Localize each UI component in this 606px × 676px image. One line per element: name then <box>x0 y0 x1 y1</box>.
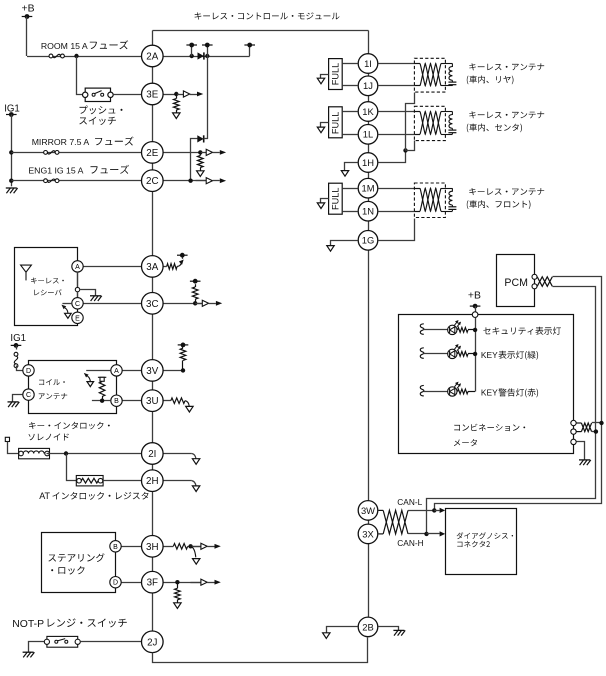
label receiver line2 <box>34 289 61 295</box>
connector 1K <box>358 102 378 122</box>
wire IG1 bus <box>11 115 13 187</box>
wire FULL2 left <box>321 123 329 128</box>
junction 3F <box>175 580 179 584</box>
wire A to 3A <box>83 266 141 268</box>
svg-text:2H: 2H <box>146 476 159 487</box>
wire 3V right <box>163 370 183 372</box>
junction 3H <box>188 544 192 548</box>
label coil antenna line1 <box>39 379 65 385</box>
resistor 3F pulldown <box>175 582 181 603</box>
wire antenna3 bottom <box>379 211 415 213</box>
junction 2C <box>188 179 192 183</box>
wire D to 3F <box>121 582 141 584</box>
svg-text:D: D <box>26 368 31 375</box>
wire 2A right <box>163 56 250 58</box>
connector 2E <box>142 142 164 164</box>
wire C to 3C <box>83 303 141 305</box>
terminal 3A <box>177 253 188 258</box>
wire C signal stub <box>62 303 71 305</box>
fuse ROOM 15A <box>49 54 64 58</box>
junction lamp2 <box>473 352 477 356</box>
label antenna1 line2 <box>467 76 514 85</box>
terminal IG1 coil <box>11 343 22 348</box>
wire D2 anode <box>191 139 198 181</box>
resistor coil inner <box>99 382 105 401</box>
wire +B meter stub <box>475 306 477 311</box>
wire CAN outer <box>435 277 602 511</box>
terminal 2A-a <box>186 43 197 48</box>
resistor 3E pulldown <box>174 94 180 113</box>
svg-text:3W: 3W <box>361 505 375 516</box>
diode D1 <box>198 52 204 59</box>
pin D steering <box>110 577 121 588</box>
svg-text:2A: 2A <box>146 52 158 63</box>
label MIRROR fuse jp <box>95 137 133 146</box>
label antenna3 line2 <box>467 200 531 209</box>
wire solenoid left <box>8 442 19 454</box>
wire meter can2 link <box>592 431 596 433</box>
wire 3H right b <box>188 546 201 548</box>
wire FULL3 top <box>342 188 357 190</box>
pin meter top <box>472 312 478 318</box>
arrow continuation 3H <box>191 546 200 564</box>
svg-text:3U: 3U <box>146 396 159 407</box>
connector 3E <box>142 83 164 105</box>
connector 1N <box>358 201 378 221</box>
arrow out 3C <box>195 300 222 306</box>
wire A to 3V <box>122 370 141 372</box>
wire D2 cathode <box>204 138 208 140</box>
pin B steering <box>110 541 121 552</box>
wire bottom rail <box>153 638 368 663</box>
pin E receiver <box>72 312 83 323</box>
connector 3W <box>358 501 378 521</box>
connector 1L <box>358 125 378 145</box>
junction CAN-H <box>424 532 428 536</box>
svg-text:3A: 3A <box>146 262 158 273</box>
wire diode D2 feed <box>207 56 209 139</box>
keyless antenna 2 <box>414 106 456 140</box>
svg-text:C: C <box>75 301 80 308</box>
label ENG1 fuse jp <box>91 165 129 174</box>
resistor 3U <box>171 398 185 404</box>
wire B to 3U <box>122 400 141 402</box>
wire FULL3 bottom <box>342 211 357 213</box>
svg-text:A: A <box>75 264 80 271</box>
box coil antenna <box>29 361 117 414</box>
arrow continuation FULL3 <box>317 203 324 209</box>
wire 3C right <box>163 303 202 305</box>
wire CAN inner <box>427 287 596 535</box>
connector 2A <box>142 45 164 67</box>
keyless antenna 3 <box>414 183 456 218</box>
label interlock line2 <box>29 433 69 440</box>
ground 2B <box>393 630 405 635</box>
wire 1G right <box>379 219 415 241</box>
connector 2C <box>142 170 164 192</box>
pin meter can1 <box>571 420 576 425</box>
wire IG1 coil down <box>16 345 18 349</box>
svg-text:MIRROR 7.5 A: MIRROR 7.5 A <box>32 137 90 147</box>
wire 2E right <box>163 152 200 154</box>
wire 1G left <box>331 241 358 246</box>
terminal 3V <box>178 343 189 348</box>
wire antenna2 top <box>379 111 415 113</box>
connector 1J <box>358 76 378 96</box>
wire 3H right a <box>163 546 173 548</box>
svg-text:2I: 2I <box>148 449 156 460</box>
pin B coil <box>111 395 122 406</box>
svg-text:B: B <box>114 398 119 405</box>
fuse ENG1 15A <box>44 179 59 183</box>
wire meter gnd <box>577 442 585 460</box>
FULL box 1 <box>329 59 343 90</box>
resistor lamp3 <box>458 389 476 394</box>
signal arrow receiver <box>61 305 71 319</box>
label lamp1 jp <box>483 327 561 335</box>
junction ENG1 <box>9 179 13 183</box>
wire fuse to D <box>17 366 23 371</box>
wire 3U right <box>163 400 171 402</box>
arrow continuation 3U <box>185 401 193 412</box>
label interlock line1 <box>29 422 110 430</box>
svg-text:FULL: FULL <box>330 187 340 209</box>
resistor lamp1 <box>458 328 476 333</box>
junction 3C <box>193 301 197 305</box>
terminal 2A-c <box>244 43 255 48</box>
connector 3X <box>358 524 378 544</box>
wire antenna1 top <box>379 63 415 65</box>
wire lamp1 feed <box>424 329 448 331</box>
ground IG1 <box>6 188 18 193</box>
wire stub 2A-b <box>207 45 209 56</box>
ground meter <box>579 460 591 465</box>
pin receiver gnd <box>75 287 79 291</box>
wire NOT-P to 2J <box>80 641 141 643</box>
resistor 2E pulldown <box>198 152 204 170</box>
wire 2B right <box>379 627 399 631</box>
label steering line2 <box>51 566 84 574</box>
svg-text:2J: 2J <box>147 637 157 648</box>
antenna symbol <box>21 265 32 280</box>
wire left module bus <box>152 31 154 632</box>
svg-text:KEY: KEY <box>481 350 498 360</box>
wire 2I right <box>163 453 192 455</box>
pad coil inner <box>98 377 106 381</box>
resistor 3H <box>173 544 187 550</box>
wire receiver gnd lead <box>80 290 96 296</box>
lamp LED 3 <box>448 382 461 397</box>
wire gnd pin to C <box>77 292 79 298</box>
wire FULL1 top <box>342 63 357 65</box>
resistor 3C pullup <box>192 284 198 303</box>
junction lamp1 <box>473 328 477 332</box>
twisted pair CAN <box>379 510 409 534</box>
svg-text:+B: +B <box>468 291 481 302</box>
label antenna2 line1 <box>469 111 544 118</box>
wire ENG1 row <box>11 180 141 182</box>
svg-text:3H: 3H <box>146 542 159 553</box>
arrow out 3H <box>190 543 220 549</box>
wire CAN-L <box>408 510 434 512</box>
resistor lamp2 <box>458 352 476 357</box>
wire lamp3 squiggle <box>420 385 424 396</box>
pin A receiver <box>72 261 83 272</box>
arrow out 2C <box>196 178 227 184</box>
svg-text:1N: 1N <box>362 206 374 217</box>
arrow continuation 1H <box>341 171 348 177</box>
arrow out 3F <box>190 579 220 585</box>
connector 1I <box>358 54 378 74</box>
resistor 3A <box>167 264 177 270</box>
wire ROOM row <box>27 56 142 58</box>
junction push-switch branch <box>74 54 78 58</box>
wire C coil gnd <box>13 395 23 402</box>
svg-text:C: C <box>26 392 31 399</box>
label diagnosis line2 <box>457 541 490 547</box>
junction 2A-b <box>205 54 209 58</box>
wire FULL3 left <box>321 199 329 203</box>
label meter line1 <box>454 424 525 431</box>
fuse MIRROR 7.5A <box>44 151 59 155</box>
svg-text:2C: 2C <box>146 176 159 187</box>
wire stub 2A-c <box>249 45 251 56</box>
arrow CAN-L <box>434 508 445 513</box>
wire AT resistor branch <box>67 454 77 481</box>
svg-text:FULL: FULL <box>330 112 340 134</box>
twisted pair PCM <box>537 277 552 287</box>
connector 1G <box>358 231 378 251</box>
label ROOM fuse jp <box>90 40 128 49</box>
wire AT resistor to 2H <box>103 480 141 482</box>
diode D2 <box>197 135 203 142</box>
label antenna3 line1 <box>469 188 544 195</box>
wire push-switch branch <box>77 57 84 95</box>
wire meter can1 link <box>592 422 602 424</box>
label module title <box>195 12 340 19</box>
terminal +B meter <box>470 304 481 309</box>
resistor 3V pullup <box>180 345 186 370</box>
connector 1H <box>358 153 378 173</box>
box PCM <box>497 255 535 307</box>
box steering lock <box>42 533 116 593</box>
wire right module bus <box>368 31 370 617</box>
pin meter can2 <box>571 429 576 434</box>
junction B inner <box>100 399 104 403</box>
wire 2B left <box>327 627 358 633</box>
ground NOT-P <box>23 652 35 657</box>
connector 2I <box>142 443 164 465</box>
label NOT-P jp <box>48 618 127 627</box>
wire antenna3 top <box>379 188 415 190</box>
pin C coil <box>23 389 34 400</box>
svg-text:3F: 3F <box>147 578 158 589</box>
junction 2E <box>198 150 202 154</box>
wire +B down <box>26 17 28 57</box>
svg-text:3X: 3X <box>362 528 374 539</box>
svg-text:FULL: FULL <box>330 63 340 85</box>
pin PCM 2 <box>532 284 537 289</box>
connector 3H <box>142 536 164 558</box>
junction MIRROR <box>9 150 13 154</box>
wire solenoid to 2I <box>47 453 142 455</box>
connector 2J <box>142 631 164 653</box>
wire lamp1 squiggle <box>420 324 424 335</box>
ground receiver <box>90 296 102 301</box>
arrow continuation FULL1 <box>317 78 324 84</box>
label diagnosis line1 <box>457 532 513 539</box>
wire share-antenna2 <box>406 141 415 151</box>
lamp LED 2 <box>448 344 461 359</box>
arrow continuation 3F <box>174 603 181 609</box>
wire stub 2A-a <box>191 45 193 56</box>
label coil antenna line2 <box>39 393 67 399</box>
wire receiver gnd pin <box>77 272 79 287</box>
box combination meter <box>399 315 574 454</box>
wire 3F right <box>163 582 201 584</box>
junction meter can1 <box>599 421 603 425</box>
wire B to 3H <box>121 546 141 548</box>
keyless antenna 1 <box>414 58 456 92</box>
wire FULL1 left <box>321 75 329 79</box>
svg-text:2B: 2B <box>362 621 373 632</box>
wire antenna1-share <box>406 93 415 151</box>
wire FULL2 top <box>342 111 357 113</box>
arrow continuation FULL2 <box>317 127 324 133</box>
wire 2H right <box>163 480 192 482</box>
wire MIRROR row <box>11 152 141 154</box>
svg-text:3E: 3E <box>146 90 158 101</box>
svg-text:1J: 1J <box>363 80 373 91</box>
terminal 2A-b <box>202 43 213 48</box>
label lamp3 jp <box>499 388 539 397</box>
svg-text:NOT-P: NOT-P <box>12 619 44 630</box>
push switch <box>83 88 114 101</box>
junction antenna share <box>403 148 407 152</box>
svg-text:ENG1 IG 15 A: ENG1 IG 15 A <box>28 165 83 175</box>
connector 3C <box>142 293 164 315</box>
wire B inner stub <box>92 400 111 402</box>
wire 3A term stub <box>182 255 184 259</box>
box keyless receiver <box>15 248 78 326</box>
svg-text:A: A <box>114 368 119 375</box>
pin PCM 1 <box>532 274 537 279</box>
fuse coil antenna <box>14 352 18 367</box>
svg-text:1I: 1I <box>364 58 372 69</box>
arrow continuation 2B <box>323 633 330 639</box>
pin C receiver <box>72 298 83 309</box>
svg-text:ROOM 15 A: ROOM 15 A <box>41 41 88 51</box>
svg-text:3V: 3V <box>146 366 158 377</box>
connector 3F <box>142 571 164 593</box>
wire 1H right <box>379 151 406 163</box>
wire FULL1 bottom <box>342 85 357 87</box>
connector 2B <box>358 617 378 637</box>
NOT-P switch <box>44 636 80 647</box>
wire lamp2 feed <box>424 353 448 355</box>
arrow out 3E <box>176 91 203 97</box>
lamp LED 1 <box>448 320 461 335</box>
twisted pair meter <box>576 423 591 432</box>
junction solenoid <box>64 451 68 455</box>
label push switch line1 <box>80 106 123 115</box>
wire NOT-P left <box>29 642 47 653</box>
wire A inner stub <box>86 370 111 372</box>
svg-text:B: B <box>113 544 118 551</box>
terminal IG1 <box>6 112 17 117</box>
arrow continuation 1G <box>327 246 334 252</box>
pin A coil <box>111 365 122 376</box>
arrow continuation 2I <box>192 454 200 465</box>
ground coil C <box>8 402 20 407</box>
wire 3E right <box>163 94 176 96</box>
junction 3E <box>174 92 178 96</box>
label push switch line2 <box>79 117 116 125</box>
wire FULL2 bottom <box>342 134 357 136</box>
arrow continuation 3E <box>173 113 180 119</box>
FULL box 2 <box>329 107 343 138</box>
label lamp2 jp <box>498 351 538 360</box>
svg-text:1M: 1M <box>361 183 374 194</box>
arrow continuation 2H <box>192 481 200 492</box>
wire 2C right <box>163 180 206 182</box>
pad solenoid <box>5 437 9 441</box>
label antenna2 line2 <box>467 124 522 133</box>
wire meter lamp rail <box>475 318 477 392</box>
arrow out 2E <box>200 149 226 155</box>
svg-text:IG1: IG1 <box>10 333 26 344</box>
svg-text:1L: 1L <box>363 129 373 140</box>
AT interlock resistor <box>76 476 103 486</box>
terminal +B <box>22 14 33 19</box>
label antenna1 line1 <box>469 63 544 70</box>
label steering line1 <box>48 553 104 562</box>
junction 2A-a <box>190 54 194 58</box>
connector 3A <box>142 256 164 278</box>
wire 3A bend <box>177 263 181 266</box>
connector 2H <box>142 470 164 492</box>
svg-text:1G: 1G <box>362 235 375 246</box>
svg-text:1H: 1H <box>362 157 374 168</box>
svg-text:1K: 1K <box>362 106 374 117</box>
junction CAN-L <box>432 508 436 512</box>
svg-text:D: D <box>113 580 118 587</box>
wire antenna2 bottom <box>379 134 415 136</box>
arrow continuation 2E <box>197 171 204 177</box>
label receiver line1 <box>31 278 64 284</box>
svg-text:CAN-L: CAN-L <box>397 497 422 507</box>
pin D coil <box>23 365 34 376</box>
signal arrowhead 3A <box>179 260 184 265</box>
svg-text:CAN-H: CAN-H <box>397 538 423 548</box>
wire 3A right <box>163 266 167 268</box>
svg-text:KEY: KEY <box>481 388 498 398</box>
wire lamp2 squiggle <box>420 348 424 359</box>
label AT resistor jp <box>53 492 149 500</box>
junction meter can2 <box>594 429 598 433</box>
wire module top rail <box>153 30 369 32</box>
svg-text:+B: +B <box>22 3 35 14</box>
solenoid <box>19 448 50 458</box>
wire CAN-H <box>408 533 427 535</box>
connector 3U <box>142 390 164 412</box>
svg-text:2E: 2E <box>146 148 158 159</box>
FULL box 3 <box>329 183 343 214</box>
label meter line2 <box>454 439 477 446</box>
signal arrow coil A <box>84 373 94 387</box>
terminal 3C <box>190 279 201 284</box>
pin meter gnd <box>571 439 576 444</box>
